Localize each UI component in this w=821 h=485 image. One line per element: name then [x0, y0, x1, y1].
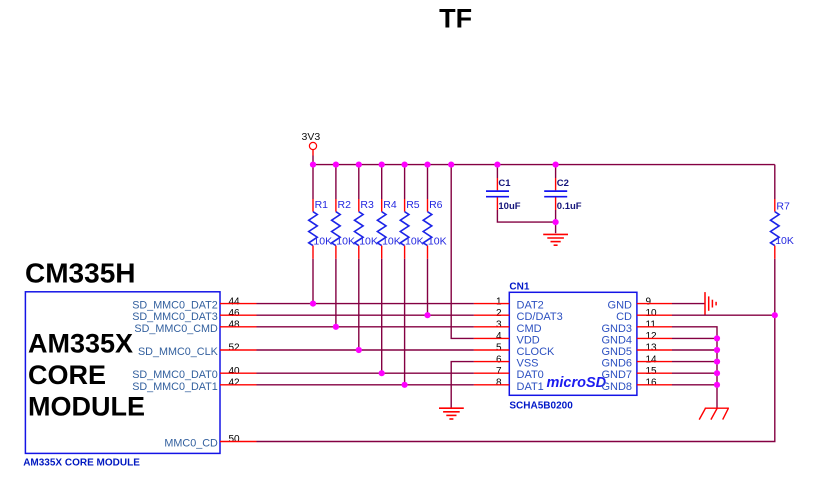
node bus/R5 — [402, 162, 408, 168]
svg-text:5: 5 — [496, 343, 502, 354]
node GND8 — [714, 382, 720, 388]
node bus/R6 — [424, 162, 430, 168]
svg-text:R6: R6 — [429, 199, 443, 211]
svg-text:40: 40 — [229, 366, 241, 377]
node R5/DAT1 — [402, 382, 408, 388]
svg-text:42: 42 — [229, 378, 241, 389]
node R6/DAT3 — [424, 312, 430, 318]
svg-text:52: 52 — [229, 343, 241, 354]
ground below VSS — [439, 408, 464, 419]
svg-text:12: 12 — [646, 331, 658, 342]
svg-text:0.1uF: 0.1uF — [557, 201, 582, 212]
wire net DAT3 (46 to CN1 pin2) — [257, 314, 474, 316]
svg-text:9: 9 — [646, 296, 652, 307]
ground right-facing at pin9 — [705, 292, 716, 315]
svg-text:10K: 10K — [405, 236, 424, 248]
node R2/CMD — [333, 324, 339, 330]
connector CN1 box — [509, 292, 637, 395]
wire pin16 GND8 — [672, 384, 717, 386]
node GND6 — [714, 359, 720, 365]
wire R6 to pin46 net — [427, 259, 429, 315]
svg-text:GND3: GND3 — [601, 323, 632, 335]
node bus/R3 — [356, 162, 362, 168]
wire C1 bottom — [497, 210, 555, 222]
ground below C2 — [543, 234, 568, 245]
CN1 right pin numbers — [646, 296, 658, 388]
svg-text:DAT2: DAT2 — [517, 300, 544, 312]
svg-text:10K: 10K — [428, 236, 447, 248]
svg-text:CORE: CORE — [28, 360, 106, 390]
resistor R4 — [377, 165, 400, 259]
wire R4 to pin40 net — [381, 259, 383, 373]
wire 3V3 bus — [313, 164, 775, 166]
resistor R6 — [423, 165, 446, 259]
svg-text:TF: TF — [439, 3, 472, 33]
wire R2 to pin48 net — [335, 259, 337, 327]
CN1 left pin names — [517, 300, 563, 393]
node bus/R2 — [333, 162, 339, 168]
svg-text:10K: 10K — [359, 236, 378, 248]
wire net CLK (52 to CN1 pin5) — [257, 349, 474, 351]
wire net MMC0_CD bottom — [257, 315, 775, 441]
svg-text:14: 14 — [646, 354, 658, 365]
CN1 right pin names — [601, 300, 632, 393]
svg-text:CN1: CN1 — [509, 281, 529, 292]
svg-text:CD: CD — [616, 311, 632, 323]
svg-text:AM335X: AM335X — [28, 329, 133, 359]
svg-text:48: 48 — [229, 320, 241, 331]
svg-text:2: 2 — [496, 308, 502, 319]
svg-text:C2: C2 — [557, 178, 569, 189]
resistor R5 — [400, 165, 423, 259]
module pin numbers — [229, 296, 241, 445]
wire VSS column to ground — [451, 362, 474, 408]
node R1/DAT2 — [310, 301, 316, 307]
CN1 left pin stubs (red) — [474, 304, 509, 385]
CN1 right pin stubs (red) — [637, 304, 672, 385]
wire pin9 to GND symbol — [672, 303, 705, 305]
node C1-C2 ground — [553, 219, 559, 225]
svg-text:C1: C1 — [498, 178, 511, 189]
svg-text:microSD: microSD — [547, 375, 607, 391]
wire net DAT1 (42 to CN1 pin8) — [257, 384, 474, 386]
svg-text:R2: R2 — [338, 199, 352, 211]
svg-text:15: 15 — [646, 366, 658, 377]
wire pin15 GND7 — [672, 372, 717, 374]
wire C2 to ground — [555, 210, 557, 233]
svg-text:DAT0: DAT0 — [517, 369, 544, 381]
capacitor C1 — [486, 165, 521, 212]
svg-text:SD_MMC0_DAT2: SD_MMC0_DAT2 — [132, 300, 218, 312]
resistor R1 — [309, 165, 332, 259]
wire R1 to pin44 net — [312, 259, 314, 304]
svg-text:GND7: GND7 — [601, 369, 632, 381]
node GND4 — [714, 335, 720, 341]
wire R5 to pin42 net — [404, 259, 406, 385]
svg-text:CMD: CMD — [517, 323, 542, 335]
svg-text:1: 1 — [496, 296, 502, 307]
node bus/C2 — [553, 162, 559, 168]
svg-text:VSS: VSS — [517, 358, 539, 370]
node bus/VDD — [448, 162, 454, 168]
svg-text:CLOCK: CLOCK — [517, 346, 556, 358]
svg-text:3V3: 3V3 — [302, 131, 321, 143]
svg-text:MMC0_CD: MMC0_CD — [164, 438, 218, 450]
svg-text:R4: R4 — [383, 199, 397, 211]
svg-text:GND4: GND4 — [601, 334, 632, 346]
module pin stubs (red) — [220, 304, 257, 442]
svg-text:DAT1: DAT1 — [517, 381, 544, 393]
chassis ground right — [699, 408, 729, 419]
svg-text:10K: 10K — [775, 235, 794, 247]
wire net DAT0 (40 to CN1 pin7) — [257, 372, 474, 374]
svg-text:SD_MMC0_DAT3: SD_MMC0_DAT3 — [132, 311, 218, 323]
module body text AM335X CORE MODULE — [28, 329, 145, 422]
wire pin10 CD to R7 — [672, 314, 775, 316]
resistor R2 — [332, 165, 355, 259]
svg-text:3: 3 — [496, 320, 502, 331]
svg-text:GND6: GND6 — [601, 358, 632, 370]
node bus/R4 — [379, 162, 385, 168]
resistor R3 — [355, 165, 378, 259]
svg-text:GND: GND — [608, 300, 633, 312]
svg-text:10K: 10K — [313, 236, 332, 248]
svg-text:10K: 10K — [382, 236, 401, 248]
node R3/CLK — [356, 347, 362, 353]
svg-text:SD_MMC0_CMD: SD_MMC0_CMD — [134, 323, 218, 335]
svg-text:10K: 10K — [336, 236, 355, 248]
wire net DAT2 (44 to CN1 pin1) — [257, 303, 474, 305]
svg-text:CM335H: CM335H — [25, 258, 135, 289]
svg-text:SD_MMC0_DAT0: SD_MMC0_DAT0 — [132, 369, 218, 381]
resistor R7 — [771, 165, 794, 259]
svg-text:13: 13 — [646, 343, 658, 354]
svg-text:R1: R1 — [315, 199, 329, 211]
svg-text:CD/DAT3: CD/DAT3 — [517, 311, 563, 323]
svg-text:46: 46 — [229, 308, 241, 319]
capacitor C2 — [544, 165, 582, 212]
node CD/R7 — [772, 312, 778, 318]
svg-text:16: 16 — [646, 378, 658, 389]
node GND7 — [714, 370, 720, 376]
svg-text:6: 6 — [496, 354, 502, 365]
wire R3 to pin52 net — [358, 259, 360, 350]
svg-text:R5: R5 — [406, 199, 420, 211]
svg-text:8: 8 — [496, 378, 502, 389]
svg-text:GND8: GND8 — [601, 381, 632, 393]
svg-text:SCHA5B0200: SCHA5B0200 — [509, 400, 573, 411]
svg-text:SD_MMC0_CLK: SD_MMC0_CLK — [138, 346, 219, 358]
svg-text:10: 10 — [646, 308, 658, 319]
svg-text:4: 4 — [496, 331, 502, 342]
svg-text:R3: R3 — [360, 199, 374, 211]
svg-text:44: 44 — [229, 296, 241, 307]
svg-text:AM335X CORE MODULE: AM335X CORE MODULE — [23, 458, 140, 469]
svg-text:MODULE: MODULE — [28, 392, 145, 422]
node bus/3V3-R1 — [310, 162, 316, 168]
wire R7 to CD net — [774, 259, 776, 315]
CN1 left pin numbers — [496, 296, 502, 388]
svg-text:11: 11 — [646, 320, 657, 331]
node GND5 — [714, 347, 720, 353]
wire pin12 GND4 — [672, 337, 717, 339]
svg-text:7: 7 — [496, 366, 502, 377]
svg-text:R7: R7 — [776, 201, 790, 213]
svg-text:SD_MMC0_DAT1: SD_MMC0_DAT1 — [132, 381, 218, 393]
wire pin11 GND3 — [672, 327, 717, 408]
svg-text:GND5: GND5 — [601, 346, 632, 358]
module CM335H box — [25, 292, 220, 454]
power net 3V3 — [302, 131, 321, 165]
wire VDD column — [451, 165, 474, 339]
node bus/C1 — [494, 162, 500, 168]
wire pin14 GND6 — [672, 361, 717, 363]
svg-text:VDD: VDD — [517, 334, 540, 346]
svg-text:50: 50 — [229, 434, 241, 445]
wire pin13 GND5 — [672, 349, 717, 351]
wire net CMD (48 to CN1 pin3) — [257, 326, 474, 328]
module pin labels — [132, 300, 218, 450]
svg-text:10uF: 10uF — [498, 201, 520, 212]
node R4/DAT0 — [379, 370, 385, 376]
